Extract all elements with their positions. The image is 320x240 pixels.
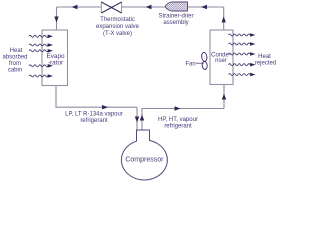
wire: valve to evaporator down pipe	[56, 7, 58, 30]
condenser	[210, 30, 233, 85]
svg-text:assembly: assembly	[163, 20, 188, 26]
svg-text:HP, HT, vapour: HP, HT, vapour	[158, 117, 198, 123]
svg-text:(T-X valve): (T-X valve)	[103, 31, 132, 37]
flow arrow: left on top line (between valve and strainer)	[146, 5, 152, 9]
svg-text:refrigerant: refrigerant	[80, 118, 108, 124]
svg-text:absorbed: absorbed	[2, 55, 27, 61]
flow arrow: down into compressor	[135, 117, 139, 123]
heat-in wavy arrow 2	[29, 44, 48, 46]
heat-in wavy arrow 1	[29, 35, 48, 37]
svg-text:Fan: Fan	[185, 61, 195, 67]
strainer-drier assembly (capsule with crosshatch)	[165, 2, 187, 11]
wire: evaporator outlet down pipe	[55, 86, 57, 108]
flow arrow: up into condenser	[222, 94, 226, 100]
flow arrow: right on discharge line	[175, 106, 181, 110]
heat-in wavy arrow 4	[29, 65, 48, 67]
wire: compressor discharge up pipe	[141, 109, 143, 131]
svg-text:from: from	[9, 61, 21, 67]
svg-text:LP, LT R-134a vapour: LP, LT R-134a vapour	[65, 112, 123, 118]
heat-out wavy arrow 1	[229, 34, 251, 36]
svg-text:nser: nser	[215, 58, 227, 64]
wire: compressor inlet down pipe	[136, 107, 138, 130]
heat-in wavy arrow 5	[29, 75, 48, 77]
svg-text:expansion valve: expansion valve	[96, 24, 140, 30]
flow arrow: right on suction line	[102, 105, 108, 109]
heat-out wavy arrow 2	[229, 43, 251, 45]
svg-text:Thermostatic: Thermostatic	[100, 17, 135, 23]
thermostatic expansion valve (bowtie)	[101, 2, 121, 13]
svg-text:-rator: -rator	[48, 60, 64, 67]
wire: top line from evaporator corner through valve and strainer to condenser corner	[57, 6, 224, 8]
flow arrow: up out of condenser	[222, 16, 226, 22]
svg-text:Compressor: Compressor	[125, 157, 164, 164]
svg-text:Heat: Heat	[258, 54, 271, 60]
flow arrow: left on top line (left segment)	[72, 5, 78, 9]
wire: condenser inlet up pipe	[223, 85, 225, 109]
heat-out wavy arrow 3	[229, 53, 251, 55]
wire: fan label pointer line	[196, 62, 204, 64]
wire: discharge line horizontal	[142, 108, 225, 110]
flow arrow: left on top line (right of strainer)	[201, 5, 207, 9]
flow arrow: down into evaporator	[54, 17, 58, 23]
heat-out wavy arrow 5	[229, 74, 251, 76]
wire: condenser outlet up pipe	[223, 7, 225, 30]
wire: suction line horizontal	[56, 106, 138, 108]
fan symbol (two-blade propeller)	[201, 52, 207, 70]
flow arrow: up out of compressor	[140, 115, 144, 121]
svg-text:Strainer-drier: Strainer-drier	[158, 14, 193, 20]
svg-text:cabin: cabin	[8, 68, 22, 74]
heat-out wavy arrow 4	[229, 64, 251, 66]
compressor (flask body)	[121, 130, 167, 180]
svg-text:Heat: Heat	[10, 48, 23, 54]
heat-in wavy arrow 3	[29, 50, 48, 52]
svg-text:refrigerant: refrigerant	[164, 124, 192, 130]
svg-text:rejected: rejected	[255, 60, 276, 66]
evaporator	[42, 30, 68, 86]
